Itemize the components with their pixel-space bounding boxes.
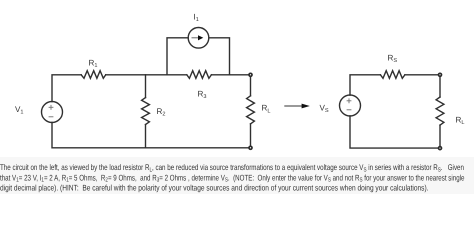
V1 minus sign <box>49 116 54 118</box>
wire: R2 upper lead <box>145 75 147 98</box>
wire: RL upper lead (right circuit) <box>439 77 441 97</box>
wire: I1 branch right leg <box>209 38 230 75</box>
resistor R2 <box>142 98 150 125</box>
transformation arrow <box>284 104 310 109</box>
wire: R1 to RL node (main top wire) <box>106 74 187 76</box>
wire: RL upper lead (left circuit) <box>250 77 252 96</box>
wire: I1 branch left leg <box>167 38 188 75</box>
svg-text:that V1= 23 V, I1= 2 A, R1= 5: that V1= 23 V, I1= 2 A, R1= 5 Ohms, R2= … <box>0 173 465 183</box>
current source I1 <box>188 28 209 49</box>
voltage source Vs <box>340 95 361 116</box>
wire: Rs to right node <box>405 74 438 76</box>
wire: RL lower lead (right circuit) <box>439 125 441 146</box>
wire: RL lower lead (left circuit) <box>250 124 252 146</box>
node: RL top (right circuit) <box>439 73 442 76</box>
resistor R1 <box>81 71 106 79</box>
resistor RL (right circuit) <box>436 97 444 125</box>
resistor Rs <box>380 71 405 79</box>
voltage source V1 <box>42 102 63 123</box>
wire: left circuit left-bottom <box>52 123 249 148</box>
svg-text:digit decimal place). (HINT:: digit decimal place). (HINT: Be careful … <box>0 184 429 193</box>
wire: R3 right to RL node <box>211 74 248 76</box>
text panel background <box>0 157 474 194</box>
Vs plus sign <box>347 98 352 103</box>
node: RL bottom (left circuit) <box>249 146 252 149</box>
resistor RL (left circuit) <box>247 96 255 124</box>
Vs minus sign <box>347 109 352 111</box>
wire: right circuit left-bottom <box>350 116 438 148</box>
resistor R3 <box>187 71 212 79</box>
wire: left circuit top, V1 corner to R1 <box>52 75 81 102</box>
wire: R2 lower lead <box>145 125 147 148</box>
node: RL bottom (right circuit) <box>439 147 442 150</box>
node: RL top (left circuit) <box>249 73 252 76</box>
I1 arrow symbol <box>192 35 204 40</box>
svg-text:The circuit on the left, as vi: The circuit on the left, as viewed by th… <box>0 163 464 173</box>
V1 plus sign <box>49 105 54 110</box>
right circuit: wire Vs top corner to Rs <box>350 75 380 95</box>
